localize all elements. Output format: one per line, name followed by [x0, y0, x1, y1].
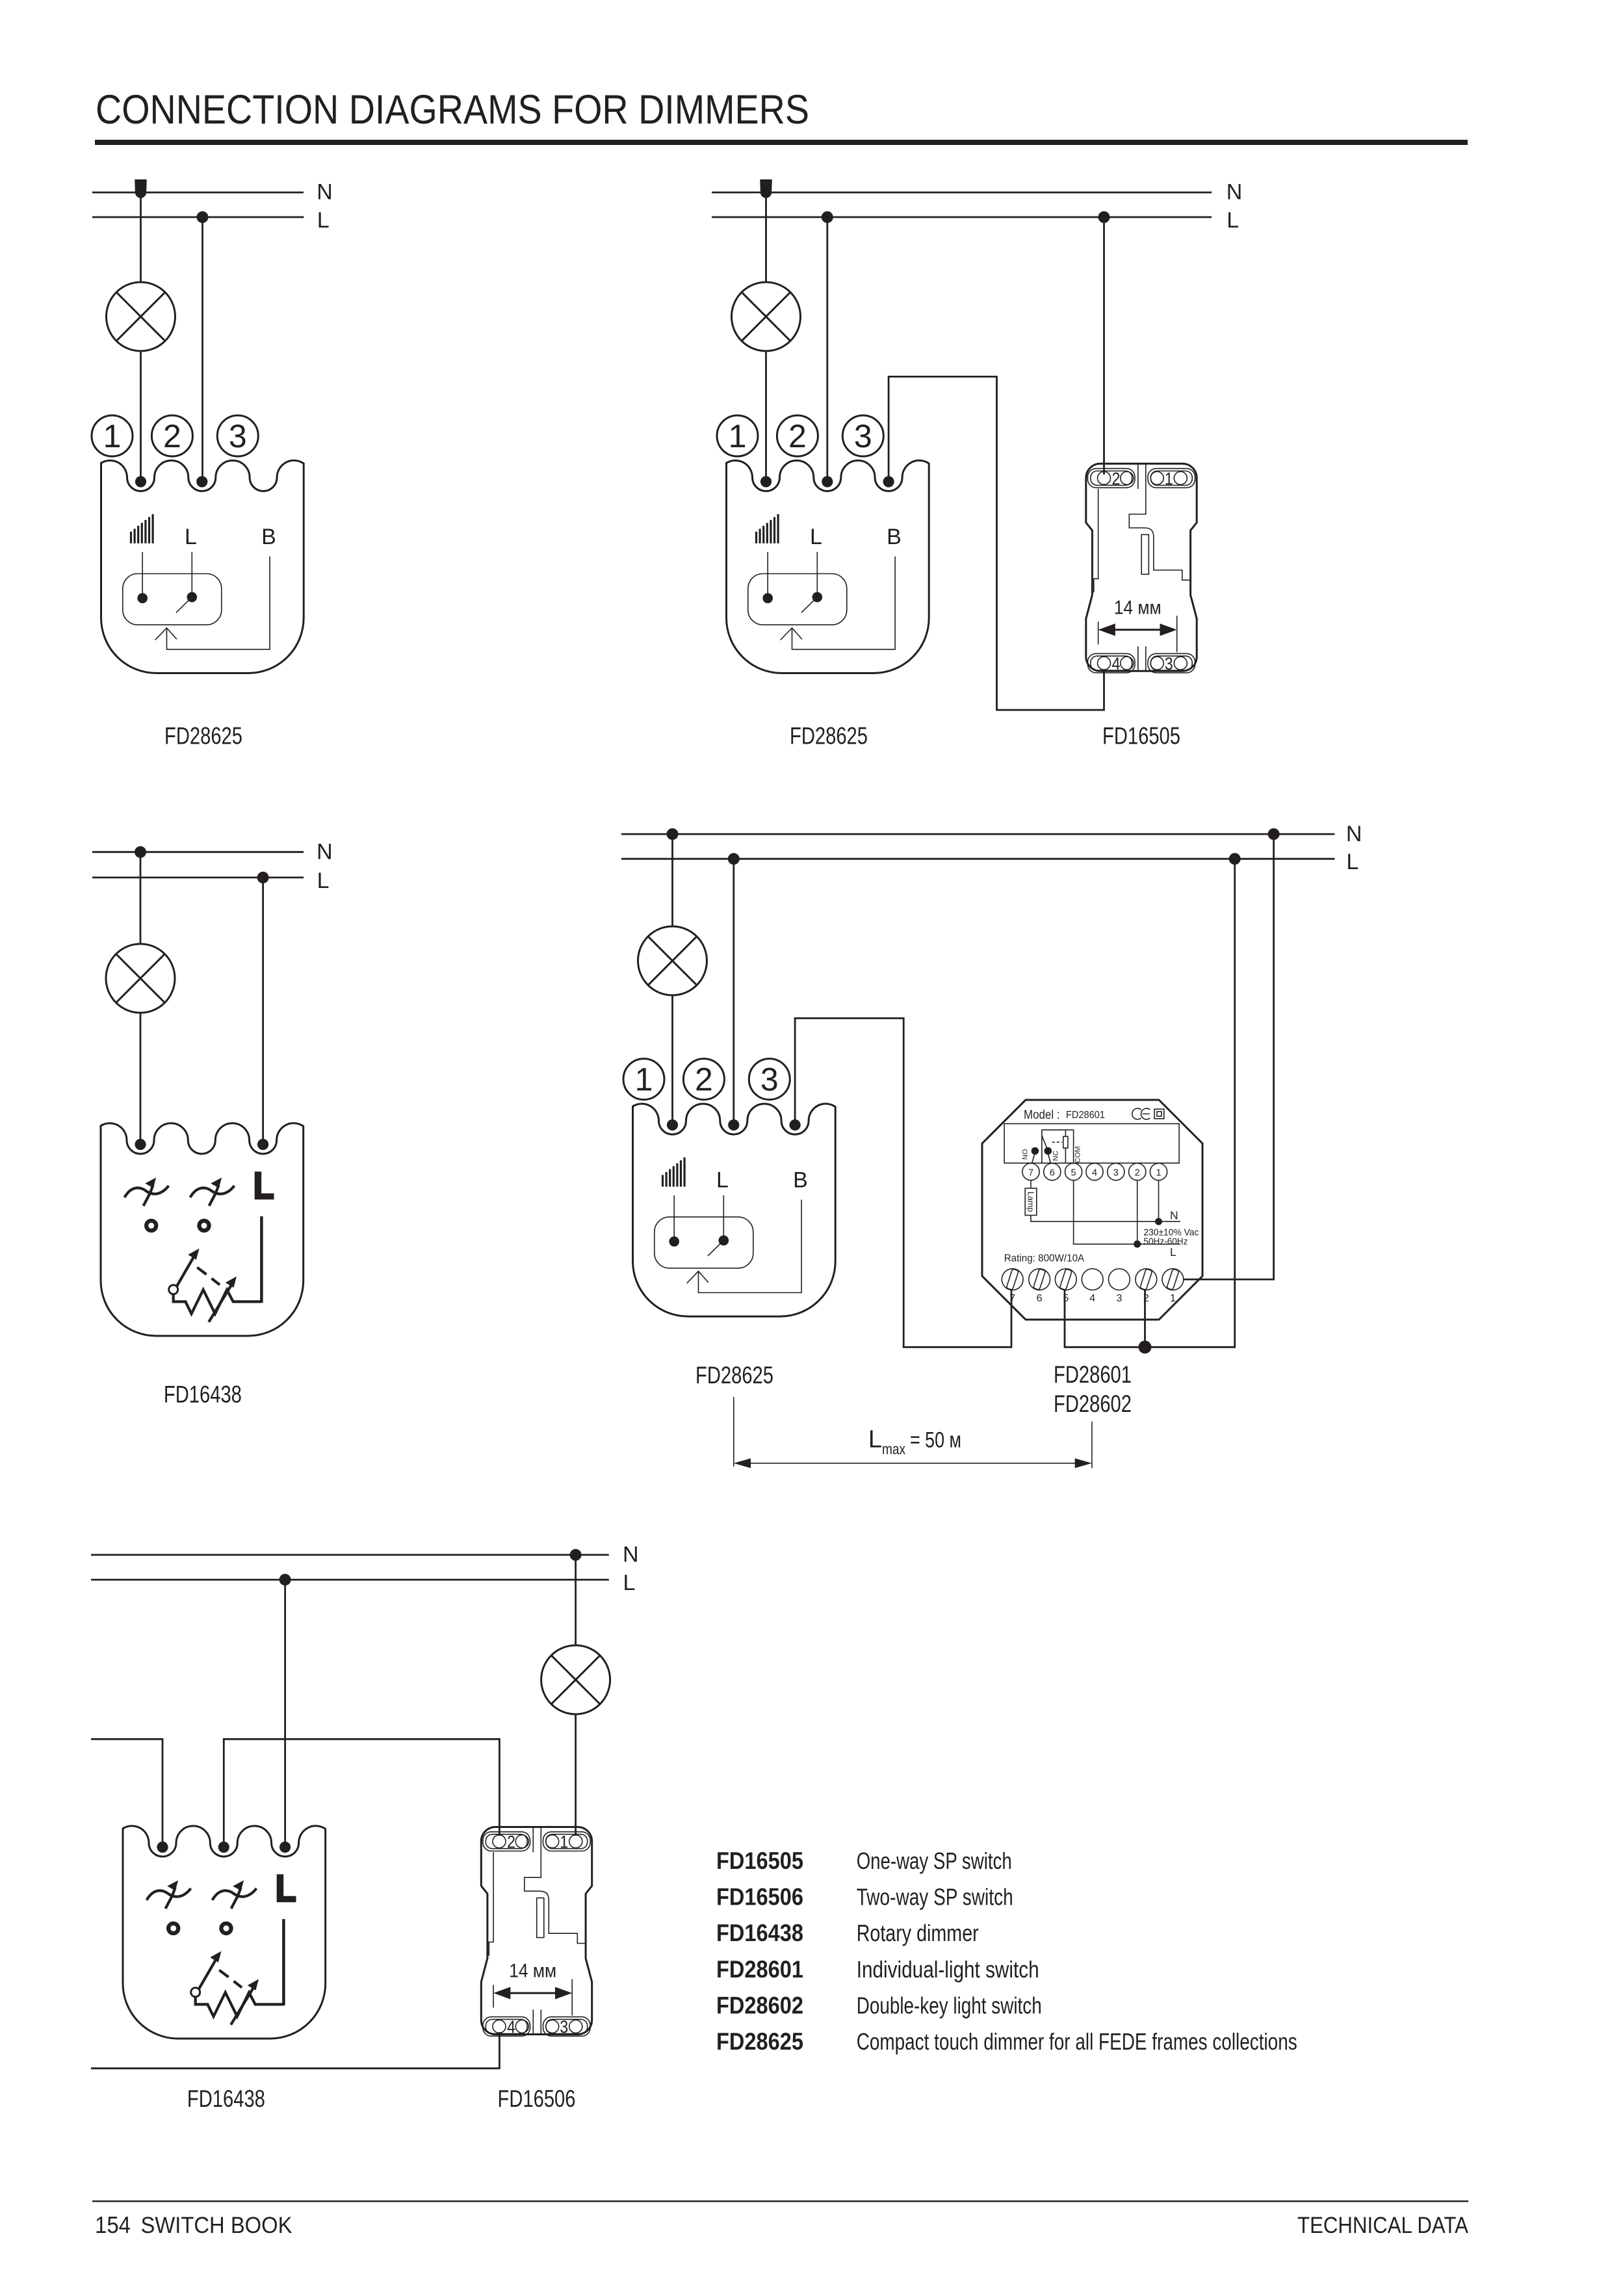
wire unit screw 5 to L [1065, 859, 1235, 1347]
dimension extension right [1091, 1422, 1093, 1468]
pin circle 4 [1086, 1164, 1103, 1181]
svg-text:FD16438: FD16438 [164, 1381, 242, 1408]
wire L to terminal 2 [201, 217, 203, 482]
junction on L [257, 872, 269, 883]
svg-text:Individual-light switch: Individual-light switch [857, 1956, 1039, 1983]
svg-text:1: 1 [729, 418, 747, 454]
terminal marker circle 3 [217, 415, 258, 456]
wire lamp to terminal 1 [671, 995, 673, 1125]
svg-text:1: 1 [1156, 1168, 1161, 1178]
junction screw 2 on L run [1139, 1340, 1152, 1353]
wire L to terminal 2 [826, 217, 828, 482]
wire N line [621, 833, 1334, 835]
lamp E1 [107, 282, 175, 351]
wire N to lamp [140, 852, 142, 944]
svg-text:6: 6 [1050, 1168, 1055, 1178]
svg-text:NC: NC [1052, 1151, 1060, 1161]
wire lamp to terminal 1 [765, 351, 767, 482]
wire switch terminal 4 return [91, 2032, 499, 2068]
svg-text:FD28625: FD28625 [695, 1362, 773, 1389]
relay coil resistor [1063, 1136, 1068, 1148]
pin circle 7 [1022, 1164, 1039, 1181]
terminal dot 2 [196, 476, 207, 487]
lamp E4 [638, 926, 707, 995]
terminal dot 1 [667, 1119, 678, 1130]
switch FD16505 [1086, 463, 1197, 673]
svg-text:5: 5 [1071, 1168, 1076, 1178]
internal N junction [1155, 1218, 1162, 1225]
svg-text:4: 4 [1089, 1293, 1095, 1304]
svg-text:6: 6 [1037, 1293, 1043, 1304]
svg-text:FD28602: FD28602 [1054, 1390, 1132, 1417]
terminal dot 1 [157, 1842, 168, 1853]
supply tap on N [135, 179, 147, 198]
svg-text:FD28601: FD28601 [1054, 1361, 1132, 1388]
svg-text:1: 1 [635, 1062, 653, 1098]
rotary dimmer module FD16438 [101, 1123, 304, 1336]
svg-text:L: L [317, 868, 330, 893]
svg-text:3: 3 [854, 418, 872, 454]
svg-text:5: 5 [1063, 1293, 1069, 1304]
svg-text:NO: NO [1022, 1149, 1030, 1160]
wire N to lamp [575, 1555, 577, 1645]
dimmer module FD28625 [727, 460, 929, 673]
title rule [95, 140, 1468, 145]
svg-text:N: N [317, 180, 333, 205]
svg-text:CONNECTION DIAGRAMS FOR DIMMER: CONNECTION DIAGRAMS FOR DIMMERS [96, 87, 809, 133]
wire B terminal to unit screw 7 [795, 1018, 1011, 1347]
Lamp box [1025, 1188, 1037, 1216]
junction on N [570, 1549, 582, 1561]
wire N to lamp [671, 834, 673, 926]
svg-text:2: 2 [163, 418, 181, 454]
svg-text:2: 2 [695, 1062, 713, 1098]
terminal marker circle 1 [623, 1059, 664, 1100]
screw terminal 3 [1109, 1269, 1130, 1305]
wire L to switch terminal 2 [1103, 217, 1105, 475]
dimmer module FD28625 [101, 460, 304, 673]
pin circle 3 [1108, 1164, 1124, 1181]
junction on N at unit [1268, 828, 1280, 840]
svg-text:3: 3 [229, 418, 247, 454]
lamp E2 [732, 282, 801, 351]
wire N to lamp [765, 192, 767, 282]
internal L junction [1134, 1240, 1141, 1247]
junction on L at switch [1098, 211, 1110, 223]
svg-text:COM: COM [1074, 1146, 1082, 1163]
dimmer module FD28625 [633, 1104, 836, 1316]
wire N line [712, 192, 1212, 194]
svg-text:Model :: Model : [1024, 1108, 1060, 1122]
wire N line [92, 192, 304, 194]
terminal dot 1 [135, 476, 146, 487]
lamp E5 [541, 1645, 610, 1714]
wire L line [712, 216, 1212, 218]
svg-text:FD28601: FD28601 [1066, 1110, 1105, 1121]
svg-text:N: N [1346, 822, 1362, 846]
svg-text:N: N [1170, 1209, 1178, 1222]
pin circle 6 [1044, 1164, 1061, 1181]
relay dashed link [1052, 1141, 1062, 1143]
svg-text:2: 2 [788, 418, 807, 454]
svg-text:FD28601: FD28601 [716, 1956, 803, 1983]
wire to terminal 1 from other switch [91, 1739, 162, 1847]
screw terminal 5 [1055, 1269, 1076, 1305]
unit terminal strip [1004, 1124, 1179, 1164]
junction on L at unit [1229, 853, 1241, 865]
wire L line [92, 877, 304, 879]
internal wire pin2 [1137, 1181, 1138, 1244]
svg-text:3: 3 [1116, 1293, 1122, 1304]
wire L line [92, 216, 304, 218]
svg-text:L: L [1346, 850, 1358, 874]
terminal dot 3 [790, 1119, 801, 1130]
wire N line [91, 1554, 609, 1556]
svg-text:L: L [317, 208, 330, 233]
terminal marker circle 1 [92, 415, 133, 456]
svg-text:7: 7 [1009, 1293, 1015, 1304]
double insulation symbol [1154, 1109, 1164, 1119]
svg-text:FD28602: FD28602 [716, 1992, 803, 2018]
svg-text:L: L [868, 1426, 882, 1453]
svg-text:TECHNICAL DATA: TECHNICAL DATA [1297, 2213, 1469, 2238]
wire L to terminal 3 [262, 878, 264, 1145]
wire lamp to switch terminal 1 [575, 1714, 577, 1836]
terminal dot 2 [218, 1842, 229, 1853]
pin circle 1 [1150, 1164, 1167, 1181]
relay unit FD28601 body [982, 1100, 1202, 1320]
svg-text:SWITCH BOOK: SWITCH BOOK [141, 2213, 292, 2238]
svg-text:L: L [1170, 1246, 1176, 1259]
terminal dot 2 [822, 476, 833, 487]
relay lever [1042, 1136, 1048, 1151]
terminal dot 3 [257, 1139, 268, 1150]
terminal marker circle 1 [717, 415, 758, 456]
rotary dimmer module FD16438 [123, 1826, 326, 2039]
svg-text:3: 3 [760, 1062, 779, 1098]
svg-text:FD28625: FD28625 [790, 723, 868, 750]
svg-text:2: 2 [1143, 1293, 1149, 1304]
junction on L [197, 211, 209, 223]
wire N to lamp [140, 192, 142, 282]
svg-text:7: 7 [1028, 1168, 1033, 1178]
pin circle 2 [1129, 1164, 1146, 1181]
svg-text:L: L [623, 1571, 636, 1595]
screw terminal 4 [1082, 1269, 1103, 1305]
svg-text:4: 4 [1092, 1168, 1097, 1178]
screw terminal 2 [1136, 1269, 1157, 1305]
svg-text:FD16505: FD16505 [716, 1847, 803, 1874]
terminal dot 3 [279, 1842, 291, 1853]
svg-text:3: 3 [1113, 1168, 1119, 1178]
svg-text:2: 2 [1135, 1168, 1140, 1178]
screw terminal 1 [1162, 1269, 1184, 1305]
junction on L [279, 1574, 291, 1585]
svg-text:50Hz-60Hz: 50Hz-60Hz [1143, 1236, 1188, 1247]
svg-text:N: N [317, 839, 333, 864]
internal wire pin1 [1158, 1181, 1160, 1221]
svg-text:1: 1 [1170, 1293, 1176, 1304]
dimension extension left [733, 1397, 734, 1467]
terminal dot 2 [728, 1119, 739, 1130]
relay contact leads [1032, 1155, 1051, 1164]
terminal dot 1 [135, 1139, 146, 1150]
svg-text:FD16438: FD16438 [187, 2085, 265, 2112]
svg-text:Two-way SP switch: Two-way SP switch [857, 1884, 1013, 1911]
wire N line [92, 851, 304, 853]
lamp E3 [106, 944, 175, 1013]
Lmax dimension arrow [738, 1463, 1088, 1464]
terminal marker circle 3 [842, 415, 883, 456]
switch FD16506 [481, 1827, 591, 2037]
terminal marker circle 2 [683, 1059, 724, 1100]
junction on N at lamp [667, 828, 679, 840]
svg-text:FD28625: FD28625 [164, 723, 242, 750]
internal N run [1031, 1216, 1180, 1222]
svg-text:FD28625: FD28625 [716, 2028, 803, 2055]
supply tap on N [760, 179, 772, 198]
terminal dot 3 [883, 476, 894, 487]
internal L run [1074, 1181, 1180, 1244]
wire L line [621, 858, 1334, 860]
svg-text:One-way SP switch: One-way SP switch [857, 1847, 1012, 1874]
wire lamp to terminal 1 [140, 1013, 142, 1145]
svg-text:= 50 м: = 50 м [910, 1428, 961, 1452]
relay contact NO dot [1032, 1147, 1039, 1155]
footer rule [92, 2200, 1468, 2202]
internal wire pin7 to Lamp [1030, 1181, 1032, 1188]
wire lamp to terminal 1 [140, 351, 142, 482]
svg-text:N: N [1227, 180, 1243, 205]
svg-text:FD16506: FD16506 [498, 2085, 576, 2112]
svg-text:FD16506: FD16506 [716, 1884, 803, 1911]
wire L to terminal 3 [284, 1580, 286, 1847]
svg-text:154: 154 [95, 2211, 131, 2238]
svg-text:N: N [623, 1542, 639, 1567]
terminal dot 1 [760, 476, 772, 487]
terminal marker circle 2 [151, 415, 192, 456]
junction on L at dimmer [728, 853, 740, 865]
pin circle 5 [1065, 1164, 1082, 1181]
wire unit screw 1 to N [1184, 834, 1274, 1279]
wire terminal 2 to switch terminal 2 [224, 1739, 499, 1847]
svg-text:Double-key light switch: Double-key light switch [857, 1992, 1042, 2018]
svg-text:max: max [882, 1441, 905, 1457]
terminal marker circle 2 [777, 415, 818, 456]
relay bridge box [1042, 1130, 1074, 1163]
svg-text:Rating: 800W/10A: Rating: 800W/10A [1004, 1253, 1085, 1264]
terminal marker circle 3 [749, 1059, 790, 1100]
wire unit screw 2 to L run [1144, 1290, 1146, 1347]
junction on N [135, 846, 146, 858]
svg-text:L: L [1227, 208, 1239, 233]
junction on L at dimmer [822, 211, 833, 223]
relay contact NC dot [1045, 1147, 1052, 1155]
svg-text:1: 1 [103, 418, 122, 454]
CE mark [1132, 1108, 1150, 1119]
screw terminal 6 [1029, 1269, 1050, 1305]
svg-text:Rotary dimmer: Rotary dimmer [857, 1920, 979, 1946]
screw terminal 7 [1002, 1269, 1023, 1305]
svg-text:Lamp: Lamp [1026, 1192, 1035, 1212]
svg-text:FD16438: FD16438 [716, 1920, 803, 1946]
svg-text:Compact touch dimmer for all F: Compact touch dimmer for all FEDE frames… [857, 2028, 1297, 2055]
wire B terminal to switch terminal 4 [889, 376, 1104, 710]
svg-text:FD16505: FD16505 [1102, 723, 1180, 750]
wire L line [91, 1579, 609, 1581]
wire L to terminal 2 [733, 859, 734, 1125]
